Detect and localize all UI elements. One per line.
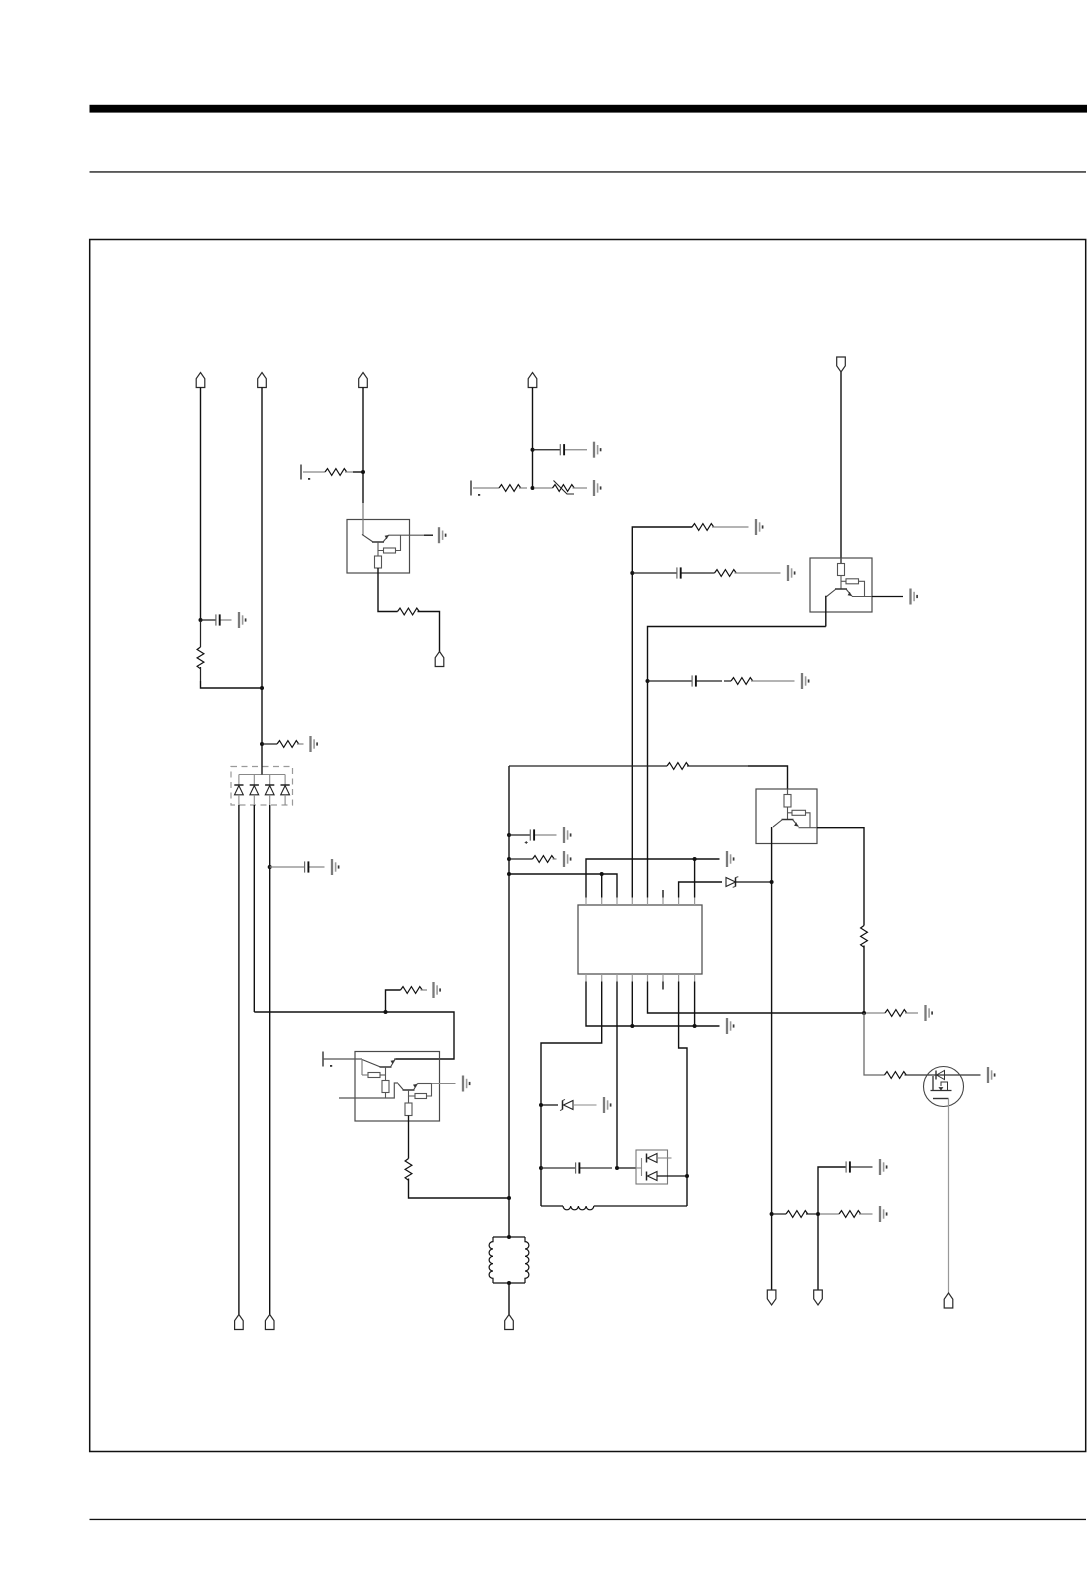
wire IC pin3 down xyxy=(616,982,618,1169)
ground G13 xyxy=(727,1018,734,1034)
wire Q4 emitter down (rail) xyxy=(771,828,774,1290)
ground G11 xyxy=(802,673,809,689)
wire Q2 collector lead xyxy=(872,596,903,598)
trimmer VR1 arrow xyxy=(554,481,575,495)
resistor R16 (gate) xyxy=(885,1072,907,1079)
port P1 (top-left supply) xyxy=(196,373,205,388)
wire Q3b r-int join xyxy=(427,1084,432,1097)
resistor r-int Q1 lower (rect) xyxy=(375,556,382,568)
junction gnd rail / pin8b xyxy=(693,1024,697,1028)
wire R5 to P6 xyxy=(418,612,440,652)
resistor R15 xyxy=(866,1010,918,1017)
dual diode D6b xyxy=(647,1172,688,1181)
wire Q4 r-int join xyxy=(806,813,811,828)
ground G1 xyxy=(239,612,246,628)
wire Q1 collector bend xyxy=(362,503,364,536)
MOSFET Q5 body diode xyxy=(936,1071,945,1080)
schematic border frame xyxy=(90,240,1086,1452)
transistor box Q4 (digital transistor) xyxy=(756,789,817,844)
junction D5 / Q4 rail xyxy=(770,880,774,884)
IC U1 pin 6 top no-connect stub xyxy=(662,890,664,898)
resistor r-int Q2 base (rect) xyxy=(846,579,859,584)
junction rail C / C5 branch xyxy=(646,679,650,683)
junction T1 top xyxy=(507,1235,511,1239)
wire Q3a res join xyxy=(380,1074,386,1076)
ground G17 (Q2 collector) xyxy=(911,589,918,605)
resistor r-int Q1 base (rect) xyxy=(384,548,396,553)
junction rail D / R11 xyxy=(507,857,511,861)
capacitor C5 xyxy=(648,675,723,686)
wire P3 to node A xyxy=(362,388,364,473)
junction C7 line / pin3 wire xyxy=(615,1166,619,1170)
ground G9 xyxy=(756,519,763,535)
resistor R5 xyxy=(398,608,420,615)
wire Q4 collector to R14 xyxy=(817,828,864,926)
resistor r-int Q3b base (rect) xyxy=(415,1094,427,1099)
resistor R8 xyxy=(705,570,781,577)
transistor Q2 symbol xyxy=(827,589,853,597)
wire IC pin8 down xyxy=(694,982,696,1027)
wire C7 to diode box xyxy=(617,1167,636,1169)
zener diode ZD1 xyxy=(541,1100,597,1111)
port P7 (bottom left) xyxy=(235,1315,244,1330)
node A junction xyxy=(361,470,365,474)
wire Q1 r-int to emitter xyxy=(396,535,401,550)
junction P2 rail / R2 xyxy=(260,742,264,746)
ground G3 xyxy=(332,859,339,875)
capacitor C4 xyxy=(632,567,705,578)
diode array DA1 (dashed outline) xyxy=(231,767,293,806)
junction P4 / C3 branch xyxy=(531,448,535,452)
IC U1 top pin stubs xyxy=(586,898,695,906)
wire IC pin4 down xyxy=(631,982,633,1027)
wire DA1 D1 to P7 xyxy=(238,805,240,1315)
wire P3 into Q1 xyxy=(362,472,364,503)
wire Q2 internal xyxy=(840,576,842,590)
wire IC pin5 down to Q4 node xyxy=(648,982,865,1014)
wire node G to P11 xyxy=(817,1214,819,1290)
transistor Q3a symbol xyxy=(362,1060,395,1068)
junction rail E / C7 line xyxy=(539,1166,543,1170)
port P9 (transformer out) xyxy=(505,1315,514,1330)
wire R1 to P2 rail xyxy=(201,681,263,688)
wire node F down xyxy=(864,1013,885,1075)
wire IC pin7 to diode D5 xyxy=(679,882,722,898)
wire IC pin1 down to gnd rail xyxy=(586,982,720,1027)
capacitor C2 xyxy=(270,861,325,872)
ground G12 xyxy=(727,851,734,867)
diode D2 in array DA1 xyxy=(250,775,259,806)
junction pin2 wire xyxy=(600,872,604,876)
MOSFET Q5 drain step xyxy=(941,1082,948,1091)
wire T1 to P9 xyxy=(508,1283,510,1315)
resistor R2 xyxy=(262,741,304,748)
resistor r-int Q3b lower (rect) xyxy=(405,1103,412,1116)
wire IC pin8 up xyxy=(694,859,696,898)
wire rail D to IC pin 3 xyxy=(509,874,617,898)
wire Q4 collector right gray xyxy=(799,827,818,829)
wire Q1 base stub xyxy=(378,542,384,551)
junction rail D / IC pin2 line xyxy=(507,872,511,876)
wire Q2 emitter down-left xyxy=(825,597,828,627)
capacitor C7 xyxy=(541,1162,612,1173)
junction D3 wire / C2 branch xyxy=(268,865,272,869)
port P5 (drive input, top right) xyxy=(837,357,846,372)
transistor box Q2 (digital transistor) xyxy=(810,558,872,612)
diode D3 in array DA1 xyxy=(265,775,274,806)
inductor L1 xyxy=(541,1206,687,1210)
wire P2 vertical rail xyxy=(261,388,263,767)
ground G19 xyxy=(988,1067,995,1083)
resistor R9 xyxy=(724,678,795,685)
capacitor C1 xyxy=(201,614,232,625)
diode D5 (to Q4 rail) xyxy=(726,877,772,888)
junction P4 line / VR1 xyxy=(531,486,535,490)
port P11 (node G out) xyxy=(814,1290,823,1305)
wire R13 to rail D xyxy=(409,1179,510,1199)
wire R3 to node A xyxy=(353,471,363,473)
wire Q2 base stub xyxy=(841,580,846,582)
wire Q2 entry xyxy=(840,558,842,564)
wire Q3b out of box xyxy=(408,1116,410,1159)
dual diode D6a xyxy=(642,1154,672,1177)
port P12 (source sense) xyxy=(944,1293,953,1308)
MOSFET Q5 channel bar xyxy=(931,1090,952,1092)
wire IC pin2 down bend xyxy=(541,982,602,1207)
wire Q3b center down xyxy=(408,1096,410,1103)
page top rule (thick) xyxy=(90,105,1087,113)
ground G2 xyxy=(311,736,318,752)
wire Q2 collector right xyxy=(852,596,872,598)
transistor Q1 symbol xyxy=(362,534,389,542)
wire Q5 source down xyxy=(948,1099,950,1294)
wire Q3a center down xyxy=(385,1067,387,1075)
resistor R10 xyxy=(509,763,748,770)
port P2 (second supply) xyxy=(258,373,267,388)
wire P5 to Q2 xyxy=(840,372,842,563)
ground G7 xyxy=(594,442,601,458)
capacitor C3 xyxy=(533,444,588,455)
resistor VR1 (trimmer) xyxy=(534,485,587,492)
terminal stub TB2 xyxy=(471,481,480,496)
wire Q2 r-int join xyxy=(859,581,865,596)
port P4 (reference input) xyxy=(528,373,537,388)
wire Q3a lower res down xyxy=(385,1093,387,1099)
terminal stub TB3 xyxy=(323,1052,332,1067)
junction Q3 feed / R12 branch xyxy=(384,1010,388,1014)
resistor R12 xyxy=(401,987,428,994)
wire Q3 base node line xyxy=(339,1083,398,1098)
IC U1 pin 6 bottom no-connect stub xyxy=(662,982,664,990)
diode D4 in array DA1 xyxy=(281,775,290,806)
wire C7-line into D6 xyxy=(636,1167,642,1169)
diode array internal bus xyxy=(239,774,285,776)
node F junction xyxy=(862,1011,866,1015)
wire rail B top bend xyxy=(632,527,692,898)
capacitor C6 (polarized) xyxy=(509,829,557,844)
wire Q3a emitter to bend xyxy=(394,1058,396,1060)
wire rail D (left long rail) xyxy=(508,766,510,1237)
transistor Q4 symbol xyxy=(773,820,799,828)
ground G14 xyxy=(604,1097,611,1113)
junction gnd rail / pin4 xyxy=(630,1024,634,1028)
resistor r-int Q2 top (rect) xyxy=(838,564,845,576)
capacitor C8 xyxy=(846,1161,872,1172)
IC U1 bottom pin stubs xyxy=(586,974,695,982)
wire D2-rail bend to Q3 xyxy=(254,1012,454,1059)
node A junction P1/C1 xyxy=(199,618,203,622)
ground G20 xyxy=(880,1159,887,1175)
transistor box Q3 (dual digital transistor) xyxy=(355,1052,440,1122)
resistor R7 xyxy=(640,524,749,531)
wire node G up to C8 xyxy=(818,1167,846,1214)
junction D6b / pin7 rail xyxy=(685,1174,689,1178)
ground G8 xyxy=(594,480,601,496)
wire Q4 entry xyxy=(787,789,789,795)
wire P2 rail into DA1 bus xyxy=(261,766,263,775)
wire Q3b collector gray xyxy=(432,1083,456,1085)
port P6 (Q1 output) xyxy=(435,652,444,667)
wire Q3b collector line xyxy=(418,1083,432,1085)
wire IC pin7 down jog xyxy=(679,982,687,1207)
ground G16 xyxy=(564,851,571,867)
transformer T1 xyxy=(489,1237,529,1283)
resistor r-int Q4 top (rect) xyxy=(784,795,791,808)
wire Q4 internal xyxy=(787,807,789,820)
wire IC pin1 up to gnd line xyxy=(586,859,720,898)
wire Q3a base gray drop xyxy=(361,1059,363,1075)
node G junction xyxy=(816,1212,820,1216)
MOSFET Q5 source arrow xyxy=(938,1087,943,1090)
resistor r-int Q4 base (rect) xyxy=(792,810,806,815)
transistor Q3b symbol xyxy=(398,1084,418,1091)
ground G18 xyxy=(926,1005,933,1021)
junction gnd line / pin8 xyxy=(693,857,697,861)
ground G4 xyxy=(434,982,441,998)
resistor R18 xyxy=(820,1211,873,1218)
junction rail B / C4 branch xyxy=(630,571,634,575)
resistor R14 (vertical) xyxy=(861,926,868,948)
diode D1 in array DA1 xyxy=(234,775,243,806)
junction rail E / ZD1 xyxy=(539,1103,543,1107)
resistor R6 xyxy=(473,485,527,492)
wire R14 down to node F xyxy=(863,946,865,1014)
footer rule (thin) xyxy=(90,1519,1087,1520)
transistor box Q1 (digital transistor) xyxy=(347,520,410,574)
resistor r-int Q3a base (rect) xyxy=(368,1073,380,1078)
resistor R11 xyxy=(509,856,557,863)
wire R16 to MOSFET xyxy=(905,1074,981,1076)
wire Q3a base-res lead xyxy=(362,1074,368,1076)
resistor R13 (Q3 output) xyxy=(405,1159,412,1181)
ground G10 xyxy=(788,565,795,581)
wire Q3a to base node xyxy=(385,1075,387,1081)
junction Q4 rail / R17 line xyxy=(770,1212,774,1216)
wire IC pin 2 up xyxy=(601,874,603,898)
ground G21 xyxy=(880,1206,887,1222)
MOSFET Q5 gate bar xyxy=(932,1076,934,1091)
junction rail D / R13 line xyxy=(507,1196,511,1200)
dual diode box D6 (outline) xyxy=(636,1150,668,1184)
wire Q4 base stub xyxy=(788,812,793,814)
wire TB3 into Q3 xyxy=(323,1058,362,1060)
junction rail D / C6 xyxy=(507,833,511,837)
wire Q1 output down xyxy=(378,568,398,612)
terminal stub TB1 xyxy=(301,465,310,480)
wire R10 to Q4 xyxy=(748,766,788,789)
port P3 (supply to Q1) xyxy=(359,373,368,388)
resistor R1 (vertical) xyxy=(197,620,204,681)
header rule (thin) xyxy=(90,171,1087,172)
port P8 (bottom left 2) xyxy=(265,1315,274,1330)
ground G6 (Q1 emitter) xyxy=(439,527,446,543)
MOSFET Q5 body circle xyxy=(924,1067,964,1107)
junction T1 bottom xyxy=(507,1281,511,1285)
ground G5 (Q3b collector) xyxy=(463,1076,470,1092)
wire Q3b base stub xyxy=(409,1090,416,1096)
resistor R17 xyxy=(773,1211,816,1218)
resistor r-int Q3a lower (rect) xyxy=(382,1081,389,1093)
wire P4 down xyxy=(532,388,534,489)
MOSFET Q5 substrate bar xyxy=(933,1098,949,1100)
wire R12 branch up xyxy=(386,990,401,1012)
IC U1 (control IC) xyxy=(578,905,702,974)
wire P1 vertical rail xyxy=(200,388,202,621)
resistor R3 xyxy=(303,469,353,476)
port P10 (Q4 rail out) xyxy=(767,1290,776,1305)
wire Q1 emitter lead xyxy=(424,534,433,536)
ground G15 xyxy=(564,827,571,843)
junction P2 rail / R1 xyxy=(260,686,264,690)
wire DA1 D3 down xyxy=(269,805,271,1315)
wire rail C bend (Q2 emitter) xyxy=(648,627,826,898)
wire DA1 D2 down xyxy=(253,805,255,1012)
wire Q1 emitter line xyxy=(389,534,424,536)
wire Q1 internal down xyxy=(377,551,379,557)
